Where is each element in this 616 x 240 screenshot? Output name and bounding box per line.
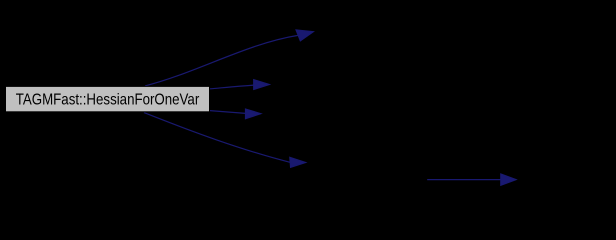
wire edge E3 to middle-lower callee xyxy=(210,109,261,119)
wire edge E5 horizontal arrow bottom right xyxy=(427,174,516,186)
wire edge E1 to upper-right callee xyxy=(145,30,314,86)
wire edge E4 to lower-right callee xyxy=(144,113,306,168)
node TAGMFast::HessianForOneVar xyxy=(6,86,210,111)
svg-text:TAGMFast::HessianForOneVar: TAGMFast::HessianForOneVar xyxy=(16,92,200,109)
wire edge E2 to middle-upper callee xyxy=(210,80,270,90)
